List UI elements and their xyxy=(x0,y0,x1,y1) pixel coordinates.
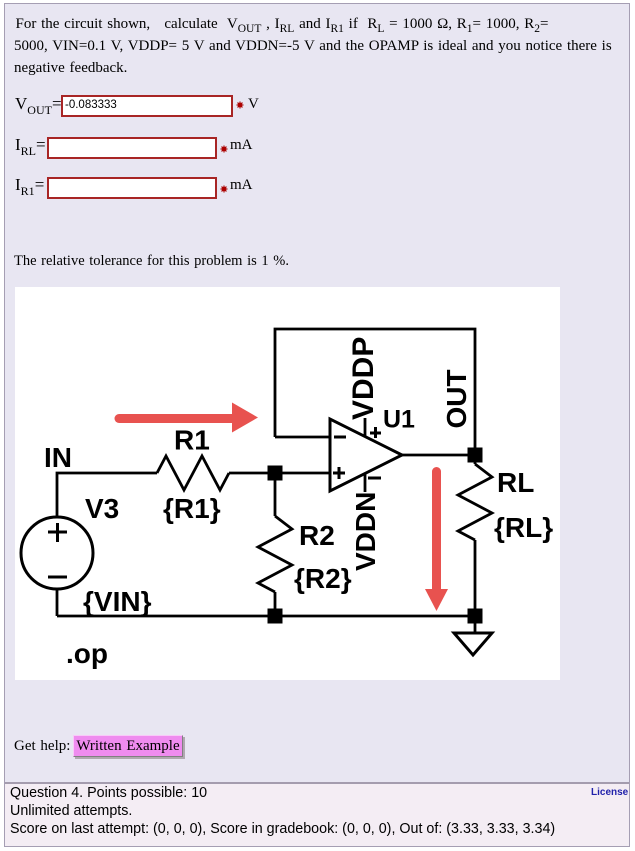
wire output xyxy=(402,454,475,457)
ground xyxy=(454,633,492,655)
VDDN minus mark xyxy=(368,477,381,480)
svg-text:V3: V3 xyxy=(85,493,119,524)
junction node R2 bottom xyxy=(268,609,283,624)
voltage source V3 circle xyxy=(21,517,93,589)
wire V3 bottom xyxy=(56,589,59,616)
junction node OUT xyxy=(468,448,483,463)
pin VDDN stub xyxy=(364,474,367,492)
row 1 xyxy=(15,94,62,114)
row 3 xyxy=(15,175,44,195)
footer xyxy=(10,784,555,838)
op-amp U1 triangle xyxy=(330,419,402,491)
svg-text:{VIN}: {VIN} xyxy=(83,586,152,617)
get help xyxy=(14,738,70,755)
wire feedback top xyxy=(275,329,475,454)
svg-text:IN: IN xyxy=(44,442,72,473)
wire ground stub xyxy=(474,616,477,633)
svg-text:{R2}: {R2} xyxy=(294,563,352,594)
resistor RL xyxy=(458,464,492,540)
svg-text:OUT: OUT xyxy=(441,369,472,428)
red arrow horizontal xyxy=(119,403,258,433)
opamp plus input mark xyxy=(333,472,345,475)
svg-text:R2: R2 xyxy=(299,520,335,551)
svg-text:RL: RL xyxy=(497,467,534,498)
wire bottom rail xyxy=(57,615,475,618)
row 2 xyxy=(15,135,46,155)
red arrow vertical xyxy=(425,472,448,612)
svg-text:U1: U1 xyxy=(383,406,415,434)
resistor R2 xyxy=(258,516,292,592)
wire main IN to opamp plus xyxy=(57,473,157,517)
wire minus input xyxy=(275,436,330,439)
svg-text:.op: .op xyxy=(66,638,108,669)
junction node RL bottom xyxy=(468,609,483,624)
paragraph xyxy=(16,13,549,35)
tolerance xyxy=(14,253,289,270)
svg-text:{RL}: {RL} xyxy=(494,512,553,543)
svg-text:R1: R1 xyxy=(174,425,210,456)
opamp minus input mark xyxy=(334,436,346,439)
junction node R1/R2/+in xyxy=(268,466,283,481)
svg-text:{R1}: {R1} xyxy=(163,493,221,524)
wire RL bottom xyxy=(474,540,477,616)
pin VDDP stub xyxy=(364,418,367,436)
resistor R1 xyxy=(157,456,229,490)
wire R1 to junction to plus input xyxy=(229,472,330,475)
wire R2 top xyxy=(274,473,277,516)
circuit image xyxy=(15,287,560,680)
wire RL top xyxy=(474,454,477,464)
wire R2 bottom xyxy=(274,592,277,616)
svg-text:VDDN: VDDN xyxy=(350,492,381,571)
svg-text:VDDP: VDDP xyxy=(347,337,380,420)
VDDP plus mark xyxy=(370,432,381,435)
V3 plus symbol xyxy=(48,531,67,534)
V3 minus symbol xyxy=(48,576,67,579)
